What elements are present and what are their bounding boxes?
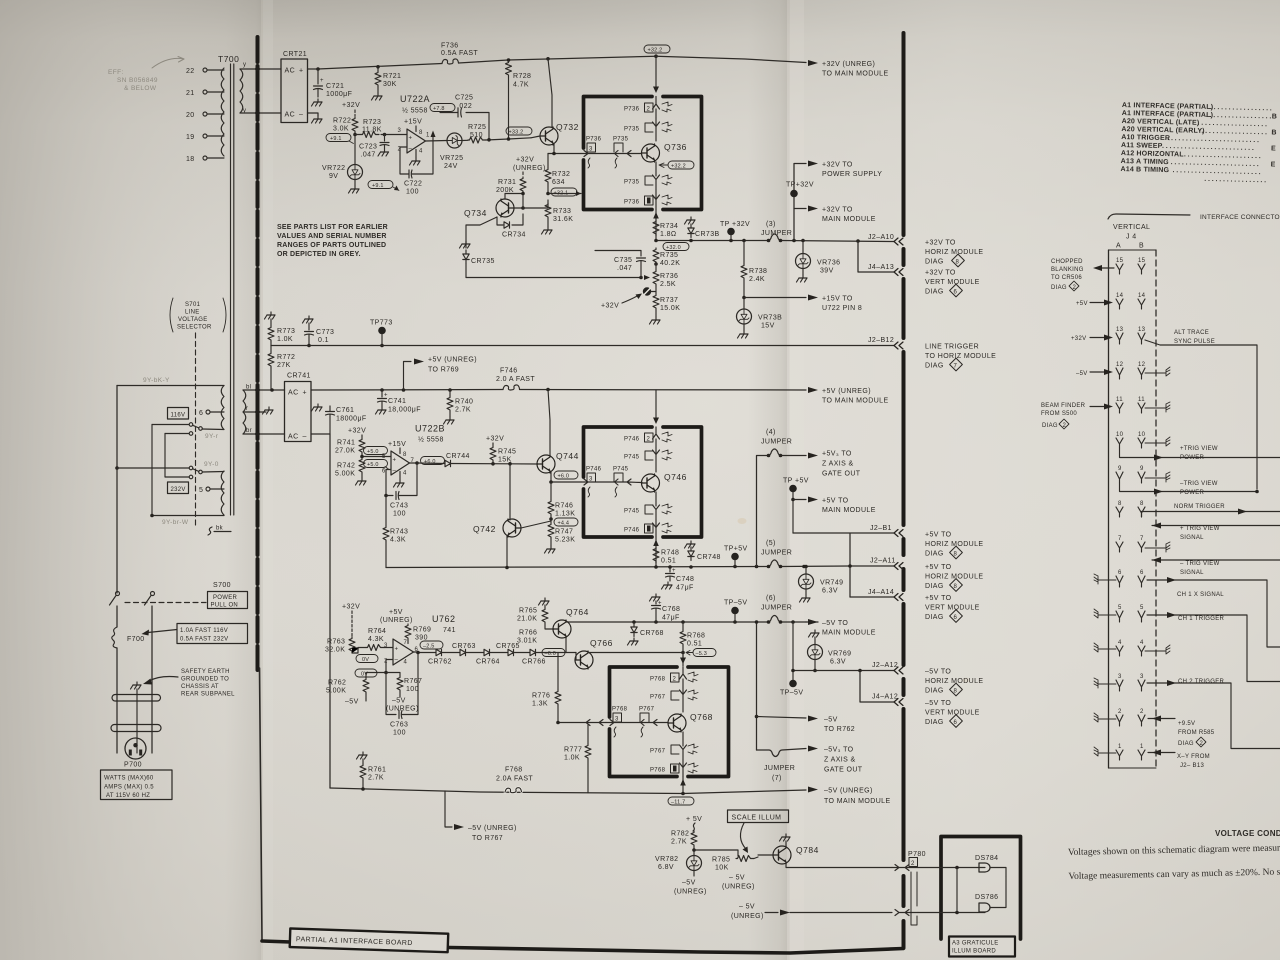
svg-text:CH 1 TRIGGER: CH 1 TRIGGER xyxy=(1178,616,1225,622)
fuse rating box xyxy=(177,624,248,644)
svg-text:A10 TRIGGER: A10 TRIGGER xyxy=(1121,134,1170,142)
svg-text:0.51: 0.51 xyxy=(687,641,702,648)
jumper (5) xyxy=(768,560,781,567)
svg-text:(UNREG): (UNREG) xyxy=(722,884,755,891)
svg-text:13: 13 xyxy=(1116,327,1124,333)
svg-text:2: 2 xyxy=(1200,741,1204,747)
svg-text:(4): (4) xyxy=(766,429,776,436)
bottom return wire xyxy=(152,515,224,517)
svg-text:F768: F768 xyxy=(505,767,523,774)
pencil arrow xyxy=(152,58,184,68)
svg-text:TO MAIN MODULE: TO MAIN MODULE xyxy=(822,398,889,405)
svg-text:.................: ................. xyxy=(1210,104,1274,112)
svg-text:1.3K: 1.3K xyxy=(532,701,548,708)
fold crease right xyxy=(787,0,790,960)
pin6 wire down and C743 xyxy=(386,470,393,496)
svg-text:– TRIG VIEW: – TRIG VIEW xyxy=(1180,561,1220,567)
node -11.7 oval xyxy=(668,797,694,805)
svg-text:CR763: CR763 xyxy=(452,643,476,650)
+5V unreg rail xyxy=(311,389,806,392)
svg-text:2.7K: 2.7K xyxy=(368,775,384,782)
svg-text:SCALE ILLUM: SCALE ILLUM xyxy=(732,815,782,822)
svg-text:3: 3 xyxy=(384,643,388,649)
svg-text:+4.4: +4.4 xyxy=(558,520,570,526)
svg-text:0.1: 0.1 xyxy=(318,337,329,344)
svg-text:.................: ................. xyxy=(1204,176,1268,184)
svg-text:7: 7 xyxy=(404,640,408,646)
svg-text:AC: AC xyxy=(285,68,296,75)
svg-text:C773: C773 xyxy=(316,329,334,336)
svg-text:CR735: CR735 xyxy=(471,258,495,265)
svg-text:– 5V: – 5V xyxy=(739,904,755,911)
svg-text:510: 510 xyxy=(470,132,483,139)
+5V output rail xyxy=(386,566,894,568)
svg-text:30K: 30K xyxy=(383,81,397,88)
svg-text:2: 2 xyxy=(673,677,677,683)
svg-text:8: 8 xyxy=(419,130,423,136)
svg-text:1.0K: 1.0K xyxy=(564,755,580,762)
svg-text:Q768: Q768 xyxy=(690,712,713,722)
svg-text:Q736: Q736 xyxy=(664,142,687,152)
svg-text:–5V TO: –5V TO xyxy=(925,700,951,707)
svg-text:7: 7 xyxy=(954,364,958,370)
svg-text:6: 6 xyxy=(1140,570,1144,576)
svg-text:DIAG: DIAG xyxy=(925,614,944,621)
svg-text:GATE OUT: GATE OUT xyxy=(822,471,861,478)
resistor R736 xyxy=(655,262,657,270)
svg-text:CHOPPED: CHOPPED xyxy=(1051,259,1083,265)
svg-text:+5V TO: +5V TO xyxy=(925,532,952,539)
svg-text:+: + xyxy=(393,458,397,464)
svg-text:CR748: CR748 xyxy=(697,554,721,561)
svg-text:2.4K: 2.4K xyxy=(749,276,765,283)
svg-text:VR749: VR749 xyxy=(820,580,843,587)
svg-text:232V: 232V xyxy=(171,487,186,493)
interface connector header xyxy=(1108,214,1190,219)
svg-text:Q742: Q742 xyxy=(473,524,496,534)
node +6.0 oval at emitter xyxy=(554,471,578,479)
transistor Q744 xyxy=(537,455,555,473)
svg-text:11: 11 xyxy=(1138,397,1145,403)
node -5.3 oval xyxy=(693,649,716,657)
svg-text:P736: P736 xyxy=(586,137,602,143)
svg-text:VR722: VR722 xyxy=(322,165,345,172)
svg-text:0V: 0V xyxy=(361,671,368,677)
svg-text:VERTICAL: VERTICAL xyxy=(1113,224,1150,231)
svg-text:+9.1: +9.1 xyxy=(330,136,342,142)
wire AC- down to -5V rail xyxy=(311,434,330,788)
svg-text:Z AXIS &: Z AXIS & xyxy=(824,757,856,764)
svg-text:2.0A FAST: 2.0A FAST xyxy=(496,776,533,783)
svg-text:6: 6 xyxy=(382,469,386,475)
svg-text:R769: R769 xyxy=(413,627,431,634)
svg-text:15V: 15V xyxy=(761,323,775,330)
svg-text:2.7K: 2.7K xyxy=(455,407,471,414)
svg-text:32.0K: 32.0K xyxy=(325,647,345,654)
svg-text:+5V (UNREG): +5V (UNREG) xyxy=(822,388,871,395)
transistor Q768 xyxy=(668,714,686,732)
svg-text:100: 100 xyxy=(393,730,406,737)
diode CR744 xyxy=(445,460,451,466)
switch contacts row1 xyxy=(152,424,189,426)
svg-text:+32V TO: +32V TO xyxy=(822,162,853,169)
svg-text:R767: R767 xyxy=(404,678,422,685)
svg-text:+ 5V: + 5V xyxy=(686,816,702,823)
svg-text:AC: AC xyxy=(288,390,299,397)
svg-text:+5.0: +5.0 xyxy=(367,449,379,455)
svg-text:C743: C743 xyxy=(390,503,408,510)
svg-text:(6): (6) xyxy=(766,595,776,602)
svg-text:8: 8 xyxy=(403,452,407,458)
svg-text:TP+5V: TP+5V xyxy=(724,546,748,553)
svg-text:LINE TRIGGER: LINE TRIGGER xyxy=(925,344,979,351)
svg-text:–: – xyxy=(393,468,397,474)
svg-text:CR741: CR741 xyxy=(287,373,311,380)
svg-text:+9.5V: +9.5V xyxy=(1178,721,1195,727)
svg-text:6.3V: 6.3V xyxy=(830,659,846,666)
svg-text:SIGNAL: SIGNAL xyxy=(1180,570,1204,576)
svg-text:+32.2: +32.2 xyxy=(671,163,686,169)
transistor Q732 xyxy=(540,127,558,145)
svg-text:J2–B1: J2–B1 xyxy=(870,525,892,532)
svg-text:–2.5: –2.5 xyxy=(423,643,435,649)
svg-text:21: 21 xyxy=(186,90,195,97)
resistor R733 xyxy=(547,200,549,203)
svg-text:R765: R765 xyxy=(519,608,537,615)
svg-text:R722: R722 xyxy=(333,118,351,125)
node +5.0 oval pin5 xyxy=(364,447,388,455)
svg-text:2: 2 xyxy=(1118,709,1122,715)
svg-text:U722 PIN 8: U722 PIN 8 xyxy=(822,305,862,312)
svg-text:1.0A FAST 116V: 1.0A FAST 116V xyxy=(180,628,228,634)
-5V to main module xyxy=(808,619,818,625)
svg-text:+32V TO: +32V TO xyxy=(925,270,956,277)
wire below box / up arrow xyxy=(682,777,684,794)
svg-text:1: 1 xyxy=(426,133,430,139)
svg-text:HORIZ MODULE: HORIZ MODULE xyxy=(925,678,983,685)
svg-text:12: 12 xyxy=(1138,362,1146,368)
svg-text:DIAG: DIAG xyxy=(925,289,944,296)
svg-text:(UNREG): (UNREG) xyxy=(380,617,413,624)
svg-text:4.3K: 4.3K xyxy=(368,636,384,643)
svg-text:CR762: CR762 xyxy=(428,659,452,666)
svg-text:27.0K: 27.0K xyxy=(335,448,355,455)
svg-text:J2– B13: J2– B13 xyxy=(1180,763,1204,769)
svg-text:24V: 24V xyxy=(444,163,458,170)
svg-text:47μF: 47μF xyxy=(662,615,680,622)
svg-text:R728: R728 xyxy=(513,73,531,80)
svg-text:3.01K: 3.01K xyxy=(517,638,537,645)
svg-text:7: 7 xyxy=(1140,536,1144,542)
svg-text:VALUES AND SERIAL NUMBER: VALUES AND SERIAL NUMBER xyxy=(277,233,387,240)
R768 xyxy=(682,622,684,630)
svg-text:3.0K: 3.0K xyxy=(333,126,349,133)
svg-text:15: 15 xyxy=(1116,258,1124,264)
Q766 collector/emitter wires xyxy=(588,652,683,654)
svg-text:100: 100 xyxy=(393,511,406,518)
svg-text:0V: 0V xyxy=(362,657,369,663)
wire to +32V unreg main module xyxy=(656,56,806,62)
svg-text:R743: R743 xyxy=(390,529,408,536)
svg-text:A14 B TIMING: A14 B TIMING xyxy=(1120,166,1169,174)
svg-text:P768: P768 xyxy=(650,677,666,683)
svg-text:.047: .047 xyxy=(361,152,376,159)
svg-text:HORIZ MODULE: HORIZ MODULE xyxy=(925,541,983,548)
svg-text:–5V (UNREG): –5V (UNREG) xyxy=(824,788,873,795)
svg-text:C763: C763 xyxy=(390,722,408,729)
svg-text:9V: 9V xyxy=(329,173,338,180)
svg-text:6: 6 xyxy=(954,615,958,621)
Q744 emitter to box xyxy=(551,472,581,482)
svg-text:A12 HORIZONTAL: A12 HORIZONTAL xyxy=(1121,150,1185,158)
vertical +32V branch to power supply xyxy=(794,164,806,241)
svg-text:+32V: +32V xyxy=(342,604,360,611)
svg-text:VR73B: VR73B xyxy=(758,315,782,322)
svg-text:P736: P736 xyxy=(624,107,640,113)
T700 5V secondary winding xyxy=(243,390,246,434)
svg-text:+: + xyxy=(395,647,399,653)
feedback sense dot xyxy=(643,287,651,295)
svg-text:3: 3 xyxy=(615,717,619,723)
svg-text:1.8Ω: 1.8Ω xyxy=(660,231,677,238)
svg-text:20: 20 xyxy=(186,112,195,119)
svg-text:TP–5V: TP–5V xyxy=(780,690,803,697)
diode CR748 xyxy=(685,541,696,548)
svg-text:CRT21: CRT21 xyxy=(283,51,307,58)
svg-text:VR769: VR769 xyxy=(828,651,851,658)
svg-text:& BELOW: & BELOW xyxy=(124,85,157,92)
A1 board border left (thin lower part) xyxy=(260,668,263,941)
svg-text:(UNREG): (UNREG) xyxy=(513,165,546,172)
svg-text:+: + xyxy=(303,390,308,397)
A1 board border bottom xyxy=(262,941,903,953)
capacitor C748 xyxy=(666,567,675,581)
svg-text:TO R769: TO R769 xyxy=(428,367,459,374)
svg-text:P700: P700 xyxy=(124,762,142,769)
svg-text:0.5A FAST 232V: 0.5A FAST 232V xyxy=(180,637,228,643)
svg-text:MAIN MODULE: MAIN MODULE xyxy=(822,216,876,223)
transistor Q784 xyxy=(773,846,791,864)
arrow from fuse rating box to F700 xyxy=(148,630,177,633)
node +9.1 oval lower xyxy=(368,181,393,189)
svg-text:P735: P735 xyxy=(613,137,629,143)
svg-text:+33.2: +33.2 xyxy=(509,129,524,135)
transistor Q742 xyxy=(503,519,521,537)
svg-text:y: y xyxy=(243,62,246,68)
R776 xyxy=(557,653,559,691)
svg-text:2.7K: 2.7K xyxy=(671,839,687,846)
svg-text:+7.8: +7.8 xyxy=(433,106,445,112)
node +33.2 oval xyxy=(506,127,532,135)
svg-text:C725: C725 xyxy=(455,95,473,102)
svg-text:21.0K: 21.0K xyxy=(517,616,537,623)
svg-text:4.7K: 4.7K xyxy=(513,82,529,89)
-5V to R762 branch xyxy=(756,622,758,750)
output wire with diode chain xyxy=(418,652,436,654)
fold crease left xyxy=(261,0,263,960)
resistor R731 xyxy=(520,177,526,193)
svg-text:GROUNDED TO: GROUNDED TO xyxy=(181,677,229,683)
Q732 collector to top rail xyxy=(548,59,552,128)
svg-text:(5): (5) xyxy=(766,540,776,547)
svg-text:POWER: POWER xyxy=(1180,490,1205,496)
svg-text:+32.2: +32.2 xyxy=(648,47,663,53)
emitter wire to P780 xyxy=(786,863,892,868)
svg-text:+: + xyxy=(299,68,304,75)
svg-text:9: 9 xyxy=(1118,466,1122,472)
svg-text:DIAG: DIAG xyxy=(925,719,944,726)
node +32.1 oval with arrow xyxy=(551,188,577,196)
svg-text:R741: R741 xyxy=(337,440,355,447)
svg-text:9Y-r: 9Y-r xyxy=(205,433,219,440)
svg-text:DIAG: DIAG xyxy=(1051,285,1067,291)
svg-text:–5.3: –5.3 xyxy=(696,651,708,657)
svg-text:8: 8 xyxy=(954,552,958,558)
J4-A12 output xyxy=(860,671,894,703)
svg-text:TP +32V: TP +32V xyxy=(720,221,750,228)
svg-text:FROM S500: FROM S500 xyxy=(1041,411,1077,417)
svg-text:GATE OUT: GATE OUT xyxy=(824,767,863,774)
svg-text:–5V₃ TO: –5V₃ TO xyxy=(824,747,854,754)
resistor R722 xyxy=(352,117,358,133)
VR725 zener on output xyxy=(426,140,448,143)
svg-text:HORIZ MODULE: HORIZ MODULE xyxy=(925,574,983,581)
pin1 node arrow xyxy=(432,134,434,141)
node +7.8 oval xyxy=(430,104,455,112)
resistor R723 xyxy=(361,132,379,138)
svg-text:VR725: VR725 xyxy=(440,155,463,162)
node +32.2 oval inside box xyxy=(668,161,694,169)
svg-text:6.3V: 6.3V xyxy=(822,588,838,595)
svg-text:P745: P745 xyxy=(613,467,629,473)
jumper (7) branch xyxy=(757,749,807,757)
svg-text:+15V TO: +15V TO xyxy=(822,296,853,303)
selector shaft dashed line xyxy=(195,333,197,528)
svg-text:4: 4 xyxy=(1118,640,1122,646)
jumper (6) xyxy=(768,621,781,623)
jumper (4) vertical xyxy=(756,390,758,455)
svg-text:–5V TO: –5V TO xyxy=(925,669,951,676)
svg-text:2: 2 xyxy=(1140,709,1144,715)
svg-text:J4–A12: J4–A12 xyxy=(872,694,898,701)
svg-text:2: 2 xyxy=(1063,423,1067,429)
svg-text:+5V TO: +5V TO xyxy=(822,498,849,505)
svg-text:0.51: 0.51 xyxy=(661,558,676,565)
svg-text:VOLTAGE CONDI: VOLTAGE CONDI xyxy=(1215,829,1280,838)
svg-text:(3): (3) xyxy=(766,221,776,228)
PARTIAL A1 INTERFACE BOARD label box xyxy=(290,929,449,953)
svg-text:634: 634 xyxy=(552,179,565,186)
svg-text:TP–5V: TP–5V xyxy=(724,600,747,607)
svg-text:BEAM FINDER: BEAM FINDER xyxy=(1041,403,1086,409)
node +4.4 oval xyxy=(550,516,552,523)
svg-text:U722B: U722B xyxy=(415,424,445,434)
switch contacts row4 xyxy=(165,476,189,478)
svg-text:BLANKING: BLANKING xyxy=(1051,267,1084,273)
svg-text:5: 5 xyxy=(1140,605,1144,611)
svg-text:J4–A13: J4–A13 xyxy=(868,264,894,271)
svg-text:DIAG: DIAG xyxy=(925,583,944,590)
svg-text:R738: R738 xyxy=(749,268,767,275)
svg-text:5.00K: 5.00K xyxy=(335,471,355,478)
heavy dashed power bar (right) with gaps at connectors xyxy=(902,33,906,948)
svg-text:–: – xyxy=(409,146,413,152)
node +32.0 oval xyxy=(663,243,689,251)
svg-text:C741: C741 xyxy=(388,398,406,405)
svg-text:½ 5558: ½ 5558 xyxy=(402,107,428,115)
svg-text:TP773: TP773 xyxy=(370,320,393,327)
svg-text:DIAG: DIAG xyxy=(1042,423,1058,429)
svg-text:DIAG: DIAG xyxy=(1178,741,1194,747)
svg-text:+5.0: +5.0 xyxy=(367,462,379,468)
svg-text:+TRIG VIEW: +TRIG VIEW xyxy=(1180,446,1218,452)
svg-text:11: 11 xyxy=(1116,397,1123,403)
svg-text:r: r xyxy=(246,406,248,412)
capacitor C741 xyxy=(378,390,387,407)
svg-text:R782: R782 xyxy=(671,831,689,838)
svg-text:C768: C768 xyxy=(662,606,680,613)
svg-text:U722A: U722A xyxy=(400,94,430,104)
svg-text:P767: P767 xyxy=(650,749,666,755)
svg-text:4: 4 xyxy=(403,471,407,477)
vertical 165 xyxy=(164,434,166,478)
resistor R773 with ground xyxy=(265,312,276,319)
svg-text:POWER: POWER xyxy=(213,595,238,601)
svg-text:+32V TO: +32V TO xyxy=(925,240,956,247)
svg-text:VERT MODULE: VERT MODULE xyxy=(925,710,980,717)
svg-text:R742: R742 xyxy=(337,463,355,470)
svg-text:TP +5V: TP +5V xyxy=(783,478,809,485)
capacitor C721 xyxy=(317,69,319,84)
svg-text:P767: P767 xyxy=(639,707,655,713)
svg-text:2.0 A FAST: 2.0 A FAST xyxy=(496,376,535,383)
svg-text:1.13K: 1.13K xyxy=(555,511,575,518)
left feed wire xyxy=(116,386,118,594)
svg-text:+15V: +15V xyxy=(388,441,406,448)
vertical 152 xyxy=(151,425,153,516)
svg-text:6: 6 xyxy=(954,720,958,726)
svg-text:R763: R763 xyxy=(327,639,345,646)
svg-text:C735: C735 xyxy=(614,257,632,264)
svg-text:+32V: +32V xyxy=(486,436,504,443)
svg-text:TO MAIN MODULE: TO MAIN MODULE xyxy=(822,71,889,78)
svg-text:AMPS (MAX) 0.5: AMPS (MAX) 0.5 xyxy=(104,785,154,791)
svg-text:–TRIG VIEW: –TRIG VIEW xyxy=(1180,481,1218,487)
output pin7 wire xyxy=(417,462,424,464)
svg-text:TO HORIZ MODULE: TO HORIZ MODULE xyxy=(925,353,996,360)
pin2 wire and C722 xyxy=(400,147,409,174)
R747 xyxy=(548,523,554,539)
R761 xyxy=(357,752,368,759)
svg-text:R734: R734 xyxy=(660,223,678,230)
svg-text:+5V TO: +5V TO xyxy=(925,595,952,602)
wire y winding to CRT21 xyxy=(240,68,281,70)
+32V rail at y=240 xyxy=(656,241,894,242)
node -5.2 oval xyxy=(523,612,546,620)
pin3 wire xyxy=(355,134,407,136)
R765 xyxy=(539,598,550,605)
svg-text:(UNREG): (UNREG) xyxy=(731,913,764,920)
resistor R725 xyxy=(462,139,468,141)
svg-text:–5V: –5V xyxy=(824,717,838,724)
resistor R772 xyxy=(270,346,272,353)
node 0V oval pin3 xyxy=(356,655,378,663)
J4-A14 output xyxy=(850,596,894,598)
capacitor C761 xyxy=(312,404,323,411)
svg-text:3: 3 xyxy=(1118,674,1122,680)
svg-text:.022: .022 xyxy=(457,103,472,110)
svg-text:R745: R745 xyxy=(498,449,516,456)
